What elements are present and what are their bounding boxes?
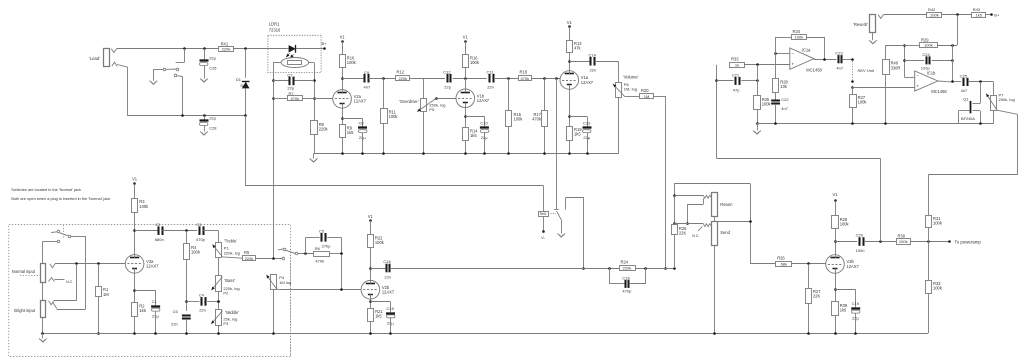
- svg-text:22n: 22n: [171, 321, 178, 326]
- svg-text:100k: 100k: [933, 286, 943, 291]
- svg-text:C28: C28: [209, 125, 217, 130]
- svg-text:100k: 100k: [762, 102, 772, 107]
- svg-text:1M: 1M: [103, 292, 109, 297]
- svg-text:4n7: 4n7: [364, 85, 371, 90]
- svg-text:R41: R41: [221, 42, 229, 47]
- svg-text:100k: 100k: [899, 239, 908, 244]
- svg-text:1M, log: 1M, log: [624, 87, 637, 92]
- svg-text:1k5: 1k5: [139, 308, 146, 313]
- svg-text:+: +: [791, 62, 794, 67]
- svg-text:C24: C24: [922, 52, 930, 57]
- svg-text:220k, log: 220k, log: [224, 250, 240, 255]
- svg-text:680n: 680n: [155, 237, 164, 242]
- svg-text:12AX7: 12AX7: [382, 290, 395, 295]
- svg-text:Normal input: Normal input: [12, 269, 36, 274]
- svg-text:R42: R42: [928, 7, 936, 12]
- svg-text:1M: 1M: [644, 94, 650, 99]
- svg-text:'Volume': 'Volume': [623, 75, 639, 80]
- svg-text:100k: 100k: [389, 114, 399, 119]
- svg-text:C1: C1: [152, 299, 158, 304]
- svg-text:100k: 100k: [191, 250, 201, 255]
- svg-text:250k, log: 250k, log: [999, 97, 1015, 102]
- svg-text:R18: R18: [520, 69, 528, 74]
- svg-text:V1: V1: [567, 20, 573, 25]
- svg-text:120p: 120p: [921, 65, 931, 70]
- svg-text:12AX7: 12AX7: [146, 264, 159, 269]
- svg-text:22K: 22K: [679, 230, 687, 235]
- svg-text:V1: V1: [340, 35, 346, 40]
- svg-text:100k: 100k: [470, 60, 480, 65]
- svg-text:+: +: [916, 84, 919, 89]
- svg-text:R12: R12: [397, 69, 405, 74]
- svg-text:R30: R30: [898, 233, 906, 238]
- svg-text:V1: V1: [463, 35, 469, 40]
- svg-text:Bright input: Bright input: [14, 308, 36, 313]
- svg-text:N.C.: N.C.: [66, 280, 73, 284]
- svg-text:V1: V1: [832, 192, 838, 197]
- svg-text:22µ: 22µ: [209, 56, 216, 61]
- svg-text:V-: V-: [541, 235, 545, 240]
- svg-text:100k: 100k: [930, 12, 939, 17]
- svg-text:220k: 220k: [222, 47, 231, 52]
- svg-text:1k5: 1k5: [375, 314, 382, 319]
- svg-text:C19: C19: [852, 301, 860, 306]
- svg-text:220k: 220k: [398, 76, 407, 81]
- svg-text:C13: C13: [583, 121, 591, 126]
- svg-text:Rel1: Rel1: [540, 212, 547, 216]
- svg-text:C15: C15: [387, 306, 395, 311]
- svg-text:4n7: 4n7: [961, 88, 968, 93]
- svg-text:12AX7: 12AX7: [354, 99, 367, 104]
- svg-text:P3: P3: [223, 321, 229, 326]
- svg-text:100k: 100k: [347, 60, 357, 65]
- svg-text:470k: 470k: [532, 116, 542, 121]
- svg-text:C22: C22: [781, 97, 789, 102]
- svg-text:B+: B+: [994, 12, 1000, 17]
- svg-text:Si: Si: [240, 84, 243, 88]
- svg-text:Switches are located in the 'N: Switches are located in the 'Normal' jac…: [11, 187, 81, 192]
- svg-text:C11: C11: [487, 69, 495, 74]
- svg-text:C10: C10: [480, 120, 488, 125]
- svg-text:N.C.: N.C.: [692, 234, 699, 238]
- svg-text:C4: C4: [199, 293, 205, 298]
- svg-text:'Treble': 'Treble': [224, 239, 237, 244]
- svg-text:IC1b: IC1b: [927, 71, 936, 76]
- svg-text:C26: C26: [209, 65, 217, 70]
- svg-text:1k5: 1k5: [840, 307, 847, 312]
- svg-text:R34: R34: [793, 29, 801, 34]
- svg-text:R24: R24: [621, 260, 629, 265]
- svg-text:100n: 100n: [856, 248, 865, 253]
- svg-text:1M log: 1M log: [279, 280, 291, 285]
- svg-text:C9: C9: [364, 70, 370, 75]
- svg-text:220k: 220k: [245, 256, 254, 261]
- svg-text:470p: 470p: [196, 237, 206, 242]
- svg-text:C3: C3: [196, 222, 202, 227]
- svg-text:47k: 47k: [574, 46, 582, 51]
- svg-text:R33: R33: [731, 57, 739, 62]
- svg-text:22p: 22p: [444, 85, 451, 90]
- svg-text:470p: 470p: [622, 289, 632, 294]
- svg-text:To poweramp: To poweramp: [955, 239, 982, 244]
- svg-text:Send: Send: [720, 230, 730, 235]
- svg-text:C14: C14: [589, 52, 597, 57]
- svg-text:470k: 470k: [520, 76, 529, 81]
- svg-text:Both are open when a plug is i: Both are open when a plug is inserted in…: [11, 196, 110, 201]
- svg-text:V1: V1: [368, 214, 374, 219]
- svg-text:C2: C2: [155, 222, 161, 227]
- svg-text:C7: C7: [287, 72, 293, 77]
- svg-text:4n7: 4n7: [836, 66, 843, 71]
- svg-text:'Reverb': 'Reverb': [853, 22, 868, 27]
- svg-text:R6: R6: [315, 246, 321, 251]
- svg-text:REV Unit: REV Unit: [858, 68, 875, 73]
- svg-text:R5: R5: [244, 250, 250, 255]
- svg-text:C25: C25: [960, 73, 968, 78]
- svg-text:C23: C23: [835, 50, 843, 55]
- svg-text:MC1458: MC1458: [931, 89, 947, 94]
- svg-text:−: −: [791, 51, 794, 56]
- svg-text:330R: 330R: [891, 65, 901, 70]
- svg-text:D1: D1: [236, 77, 242, 82]
- svg-text:C5: C5: [319, 229, 325, 234]
- svg-text:22n: 22n: [199, 308, 206, 313]
- svg-text:MC1458: MC1458: [806, 67, 822, 72]
- svg-text:100k: 100k: [924, 43, 933, 48]
- svg-text:270p: 270p: [322, 244, 332, 249]
- svg-text:22n: 22n: [384, 274, 391, 279]
- svg-text:IC1a: IC1a: [802, 48, 811, 53]
- svg-text:220k: 220k: [319, 127, 329, 132]
- svg-text:68k: 68k: [781, 262, 787, 267]
- svg-text:C16: C16: [383, 259, 391, 264]
- svg-text:10k: 10k: [780, 84, 788, 89]
- svg-text:−: −: [916, 74, 919, 79]
- svg-text:100k: 100k: [514, 116, 524, 121]
- svg-text:'Bass': 'Bass': [225, 278, 236, 283]
- svg-text:100k: 100k: [795, 35, 804, 40]
- svg-text:R20: R20: [641, 88, 649, 93]
- svg-text:100k: 100k: [139, 204, 149, 209]
- svg-text:C21: C21: [732, 72, 740, 77]
- svg-text:V1: V1: [132, 177, 138, 182]
- svg-text:'Overdrive': 'Overdrive': [399, 99, 419, 104]
- svg-text:22n: 22n: [487, 85, 494, 90]
- svg-text:22µ: 22µ: [209, 116, 216, 121]
- svg-text:100k: 100k: [858, 100, 868, 105]
- svg-text:470k: 470k: [315, 258, 324, 263]
- svg-text:R43: R43: [973, 7, 981, 12]
- svg-text:1k5: 1k5: [574, 132, 581, 137]
- svg-text:12AX7: 12AX7: [581, 80, 594, 85]
- svg-text:R7: R7: [289, 91, 295, 96]
- svg-text:B+: B+: [322, 41, 328, 46]
- svg-text:R26: R26: [777, 256, 785, 261]
- svg-text:22K: 22K: [813, 294, 821, 299]
- svg-text:1k5: 1k5: [975, 12, 982, 17]
- svg-text:1k: 1k: [735, 63, 739, 68]
- svg-text:P5: P5: [429, 107, 435, 112]
- svg-text:C12: C12: [443, 69, 451, 74]
- svg-text:C6: C6: [173, 309, 179, 314]
- svg-text:C20: C20: [856, 233, 864, 238]
- svg-text:1k5: 1k5: [347, 130, 354, 135]
- svg-text:47p: 47p: [733, 87, 740, 92]
- svg-text:12AX7: 12AX7: [847, 264, 860, 269]
- svg-text:100k: 100k: [933, 221, 943, 226]
- svg-text:1k5: 1k5: [470, 133, 477, 138]
- svg-text:Return: Return: [720, 202, 733, 207]
- svg-text:220k: 220k: [623, 266, 632, 271]
- svg-text:12AX7: 12AX7: [477, 98, 490, 103]
- svg-text:22n: 22n: [590, 68, 597, 73]
- svg-text:LDR1: LDR1: [269, 22, 280, 27]
- svg-text:Q1: Q1: [963, 96, 969, 101]
- svg-text:72316: 72316: [269, 28, 281, 33]
- svg-text:BF245A: BF245A: [961, 116, 975, 121]
- svg-text:'Lead': 'Lead': [89, 56, 100, 61]
- svg-text:'Middle': 'Middle': [225, 310, 239, 315]
- svg-text:C8: C8: [359, 121, 365, 126]
- svg-text:100k: 100k: [840, 221, 850, 226]
- svg-text:P2: P2: [223, 290, 229, 295]
- svg-text:R29: R29: [921, 37, 929, 42]
- svg-text:100k: 100k: [375, 240, 385, 245]
- svg-text:470k: 470k: [290, 96, 299, 101]
- svg-text:C18: C18: [622, 275, 630, 280]
- svg-text:4n7: 4n7: [781, 106, 788, 111]
